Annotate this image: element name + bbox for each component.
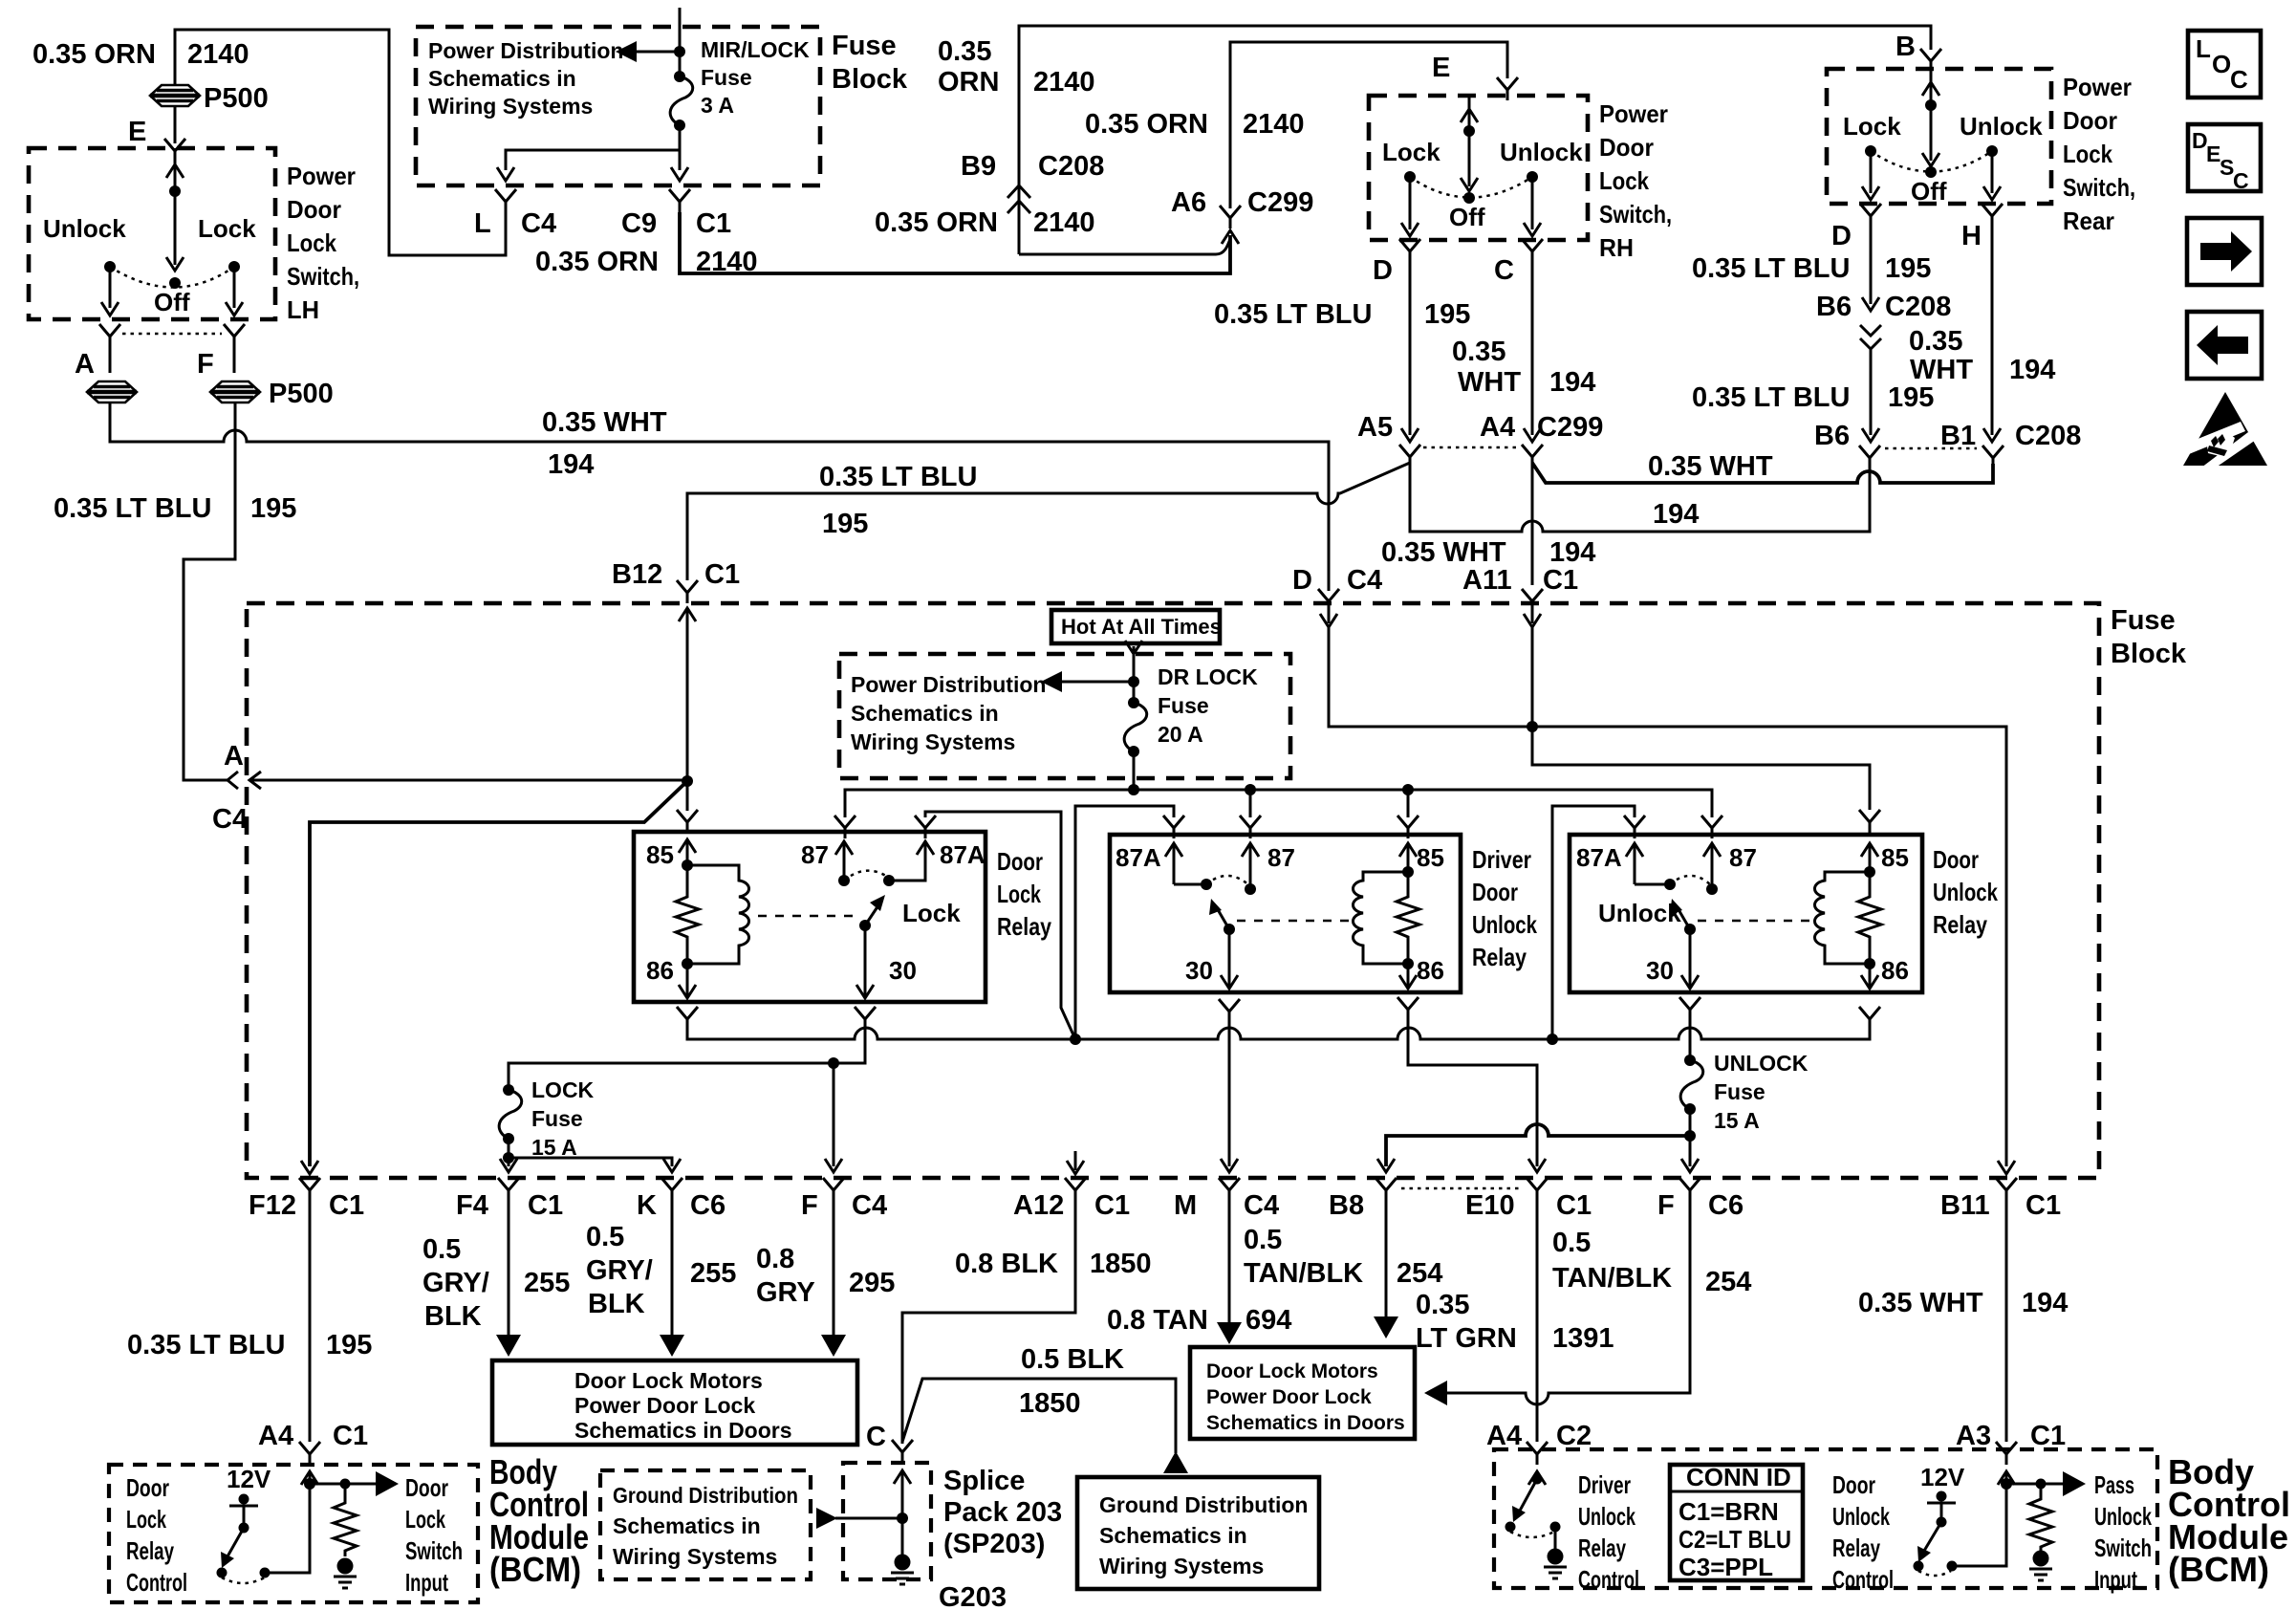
LH power door lock switch box [29, 148, 275, 319]
svg-text:Lock: Lock [1599, 166, 1649, 195]
svg-text:F: F [801, 1190, 818, 1221]
G203 ground ball [891, 1555, 914, 1585]
label Door Lock Switch Input [405, 1473, 463, 1597]
relay3 30 chevron below [1679, 997, 1700, 1020]
svg-text:GRY/: GRY/ [422, 1268, 489, 1298]
svg-text:195: 195 [1888, 382, 1934, 413]
right arrow icon box [2187, 218, 2262, 285]
relay1 85 chevron [677, 810, 698, 833]
svg-text:H: H [1961, 221, 1982, 251]
svg-text:194: 194 [2022, 1288, 2068, 1318]
svg-text:85: 85 [646, 840, 674, 869]
svg-text:(SP203): (SP203) [943, 1529, 1045, 1559]
arrow into BCM at A3/C1 [1998, 1471, 2015, 1485]
pin F label [197, 349, 214, 380]
svg-text:Fuse: Fuse [1158, 693, 1209, 718]
RH unlock output wire C [1524, 177, 1541, 236]
label Fuse Block (right) [2111, 605, 2187, 669]
svg-text:85: 85 [1881, 843, 1909, 872]
labels A12 C1 [1013, 1190, 1130, 1221]
relay2 86 wire to E10 [1408, 1020, 1546, 1172]
label 0.35 LT BLU 195 (rear lower) [1692, 382, 1934, 413]
label Power Door Lock Switch, RH [1599, 99, 1672, 262]
rear H wire down to B1 [1983, 227, 2001, 442]
wire 194 from A4 to rear B1 with hop over rear D wire [1532, 463, 1993, 483]
svg-text:Driver: Driver [1472, 845, 1531, 874]
svg-text:TAN/BLK: TAN/BLK [1244, 1258, 1363, 1289]
top bus wire from B9 column to rear switch B [1019, 26, 1931, 254]
wire from Hot At All Times into DR LOCK fuse [1125, 641, 1142, 703]
relay2 pin 30 arrow [1185, 929, 1238, 989]
connector A4/C1 chevron [299, 1442, 320, 1465]
svg-text:87A: 87A [1116, 843, 1161, 872]
B8 branch wire with hop over E10 [1377, 1124, 1696, 1172]
connector pin A6 chevron and arrow [1220, 206, 1241, 228]
svg-text:E10: E10 [1465, 1190, 1515, 1221]
svg-text:B6: B6 [1814, 421, 1850, 451]
relay3 85 chevron [1859, 810, 1880, 833]
wire from E splice up and over to L/C4 [175, 30, 506, 255]
B11 pin chevron [1996, 1178, 2017, 1201]
arrow into fuse block at B12 [679, 608, 696, 631]
in-line connector B9 C208 double chevron [1007, 185, 1030, 213]
relay2 87A chevron [1163, 816, 1184, 838]
svg-text:194: 194 [2009, 355, 2055, 385]
arrow into BCM at A4/C1 [301, 1471, 318, 1485]
wire C down to A4 [1524, 262, 1541, 442]
svg-text:1391: 1391 [1552, 1323, 1614, 1354]
svg-text:Relay: Relay [1472, 943, 1527, 971]
LOC icon box [2188, 31, 2261, 98]
svg-text:Schematics in: Schematics in [613, 1513, 761, 1538]
svg-text:20 A: 20 A [1158, 722, 1203, 747]
relay1 pin 87 contact [801, 840, 853, 886]
svg-text:WHT: WHT [1458, 367, 1521, 398]
svg-text:A11: A11 [1462, 565, 1512, 596]
relay 3 Door Unlock Relay box [1570, 835, 1922, 992]
svg-text:C4: C4 [1347, 565, 1382, 596]
svg-text:Ground Distribution: Ground Distribution [1099, 1492, 1308, 1517]
svg-text:Unlock: Unlock [1500, 138, 1583, 166]
F4 pin chevron [498, 1178, 519, 1201]
labels F C6 (right) [1657, 1190, 1744, 1221]
svg-text:Lock: Lock [1382, 138, 1440, 166]
label Door Lock Motors Power Door Lock Schematics in Doors (right) [1206, 1360, 1405, 1434]
node E label (RH) [1432, 53, 1450, 83]
svg-text:Wiring Systems: Wiring Systems [851, 729, 1015, 754]
connector pin A chevron [99, 324, 120, 347]
BCM box (right) [1494, 1449, 2157, 1588]
svg-text:Unlock: Unlock [1472, 910, 1537, 939]
label 0.35 WHT 194 (upper left run) [542, 407, 667, 480]
F/C6 wire to motors right box with hop over E10 [1424, 1201, 1690, 1405]
svg-text:Relay: Relay [1832, 1534, 1880, 1562]
Hot At All Times box [1051, 610, 1222, 643]
LH switch lock output wire [226, 267, 243, 315]
labels B6 B1 C208 (lower) [1814, 421, 2081, 451]
DR LOCK fuse box [839, 654, 1290, 778]
svg-text:Door Lock Motors: Door Lock Motors [1206, 1360, 1378, 1382]
86/30 bus below relays [687, 1028, 1870, 1045]
svg-text:P500: P500 [269, 379, 334, 409]
svg-text:C2=LT BLU: C2=LT BLU [1679, 1525, 1791, 1554]
svg-text:Block: Block [2111, 639, 2187, 669]
A12 column labels 0.8 BLK 1850 [955, 1249, 1152, 1279]
svg-text:B12: B12 [612, 559, 662, 590]
LH switch throw arc [110, 267, 234, 288]
wire 194 from A4 down to fuse block A11 [1531, 463, 1534, 585]
svg-text:A: A [75, 349, 95, 380]
label UNLOCK Fuse 15 A [1714, 1051, 1809, 1133]
svg-text:Door: Door [1472, 878, 1518, 906]
E10 pin chevron [1527, 1178, 1548, 1201]
relay3 resistor [1858, 872, 1881, 964]
door lock motors box (right) [1190, 1347, 1415, 1439]
svg-text:Schematics in: Schematics in [428, 66, 576, 91]
svg-text:Power Door Lock: Power Door Lock [574, 1393, 755, 1418]
labels M C4 [1174, 1190, 1279, 1221]
svg-text:Unlock: Unlock [1598, 899, 1681, 927]
relay2 coil to blade dashed link [1237, 920, 1352, 923]
F/C6 pin chevron [1679, 1178, 1700, 1201]
svg-text:E: E [1432, 53, 1450, 83]
relay1 resistor [676, 865, 699, 964]
svg-text:Relay: Relay [126, 1536, 174, 1565]
svg-text:Unlock: Unlock [1832, 1502, 1890, 1531]
relay1 30 output to LOCK fuse and F pin [509, 1030, 865, 1090]
svg-text:C4: C4 [212, 804, 248, 835]
label Body Control Module (BCM) right [2168, 1452, 2290, 1589]
svg-text:Fuse: Fuse [1714, 1079, 1765, 1104]
MIR/LOCK fuse block box [416, 27, 820, 185]
pass unlock switch input arrow (right BCM) [2006, 1471, 2086, 1496]
svg-text:2140: 2140 [1033, 67, 1095, 98]
relay2 pin 85 [1399, 843, 1444, 878]
connector face dashes B8-E10 [1401, 1187, 1522, 1190]
relay2 87A link bracket [1075, 806, 1174, 1039]
splice P500 A [87, 381, 137, 402]
relay1 87A chevron [915, 816, 936, 838]
svg-text:GRY/: GRY/ [586, 1255, 653, 1286]
svg-text:Door: Door [126, 1473, 169, 1502]
svg-text:2140: 2140 [1243, 109, 1305, 140]
labels F12 C1 [249, 1190, 364, 1221]
svg-text:DR LOCK: DR LOCK [1158, 664, 1258, 689]
label Door Unlock Relay [1933, 845, 1998, 939]
relay1 87A link to A12 net [925, 812, 1075, 1039]
svg-text:D: D [1373, 255, 1393, 286]
ground distribution box (dashed, middle) [600, 1470, 811, 1579]
svg-text:Door: Door [1832, 1470, 1875, 1499]
relay2 87 chevron [1240, 816, 1261, 838]
svg-text:Hot At All Times: Hot At All Times [1061, 615, 1222, 639]
relay2 86 chevron below [1397, 997, 1419, 1020]
svg-text:C299: C299 [1247, 187, 1313, 218]
M wire down to motors (right box) [1217, 1201, 1242, 1344]
label 0.35 LT BLU 195 (RH D wire) [1214, 299, 1470, 330]
connector A3/C1 chevron [1996, 1442, 2017, 1465]
svg-text:Switch,: Switch, [2063, 173, 2135, 202]
connector B1 chevron (lower) [1982, 446, 2004, 468]
labels A C4 (left outlet) [212, 741, 248, 835]
rear throw arc [1871, 151, 1992, 172]
12V supply symbol (left BCM) [227, 1465, 271, 1534]
relay2 coil [1354, 872, 1415, 969]
svg-text:Ground Distribution: Ground Distribution [613, 1483, 798, 1508]
svg-text:Power: Power [1599, 99, 1668, 128]
svg-text:3 A: 3 A [701, 93, 734, 118]
CONN ID table [1670, 1463, 1803, 1581]
label Power Door Lock Switch, LH [287, 162, 359, 324]
svg-text:0.35 WHT: 0.35 WHT [1381, 537, 1506, 568]
svg-text:0.35 ORN: 0.35 ORN [535, 247, 659, 277]
svg-text:M: M [1174, 1190, 1197, 1221]
svg-text:Door: Door [1933, 845, 1979, 874]
svg-text:15 A: 15 A [1714, 1108, 1760, 1133]
svg-text:BLK: BLK [424, 1301, 482, 1332]
connector E chevron [164, 139, 185, 162]
relay2 30 chevron below [1219, 999, 1240, 1022]
rear power door lock switch box [1827, 69, 2051, 204]
label 0.35 LT BLU 195 (rear upper) [1692, 253, 1931, 284]
svg-text:C1: C1 [2025, 1190, 2061, 1221]
svg-text:87A: 87A [940, 840, 986, 869]
RH feed arrowheads [1461, 109, 1478, 191]
svg-text:295: 295 [849, 1268, 895, 1298]
svg-text:C2: C2 [1556, 1421, 1592, 1451]
svg-text:Unlock: Unlock [2094, 1502, 2152, 1531]
F pin chevron [823, 1178, 844, 1201]
svg-text:Unlock: Unlock [1933, 878, 1998, 906]
svg-text:Relay: Relay [997, 912, 1051, 941]
label 0.35 WHT 194 (to rear) [1648, 451, 1773, 530]
svg-text:C: C [1494, 255, 1514, 286]
svg-text:G203: G203 [939, 1582, 1007, 1610]
svg-text:C: C [2230, 65, 2248, 94]
svg-text:195: 195 [326, 1330, 372, 1360]
svg-text:B6: B6 [1816, 292, 1852, 322]
svg-text:Power Distribution: Power Distribution [428, 38, 623, 63]
svg-text:Rear: Rear [2063, 207, 2114, 235]
svg-text:Lock: Lock [198, 214, 256, 243]
labels A3 C1 [1956, 1421, 2066, 1451]
svg-text:C4: C4 [521, 208, 556, 239]
svg-text:194: 194 [548, 449, 594, 480]
svg-text:0.35: 0.35 [938, 36, 991, 67]
ground distribution box (solid, right) [1077, 1477, 1319, 1589]
svg-text:Switch,: Switch, [287, 262, 359, 291]
rear feed arrowheads [1922, 82, 1939, 166]
relay3 87 chevron [1701, 816, 1722, 838]
relay2 pin 87 [1242, 843, 1295, 895]
svg-text:Switch,: Switch, [1599, 200, 1672, 228]
svg-text:Block: Block [832, 64, 908, 95]
svg-text:B8: B8 [1329, 1190, 1364, 1221]
relay3 pin 85 [1861, 843, 1909, 878]
svg-text:0.35 LT BLU: 0.35 LT BLU [1214, 299, 1372, 330]
svg-text:30: 30 [1646, 956, 1674, 985]
F/C6 column label 254 [1705, 1267, 1751, 1297]
label Splice Pack 203 (SP203) [943, 1466, 1062, 1559]
svg-text:Power: Power [287, 162, 356, 190]
F4 column labels 0.5 GRY/ BLK 255 [422, 1234, 570, 1332]
label Door Lock Relay Control [126, 1473, 187, 1597]
RH Off contact [1449, 192, 1485, 231]
svg-text:694: 694 [1245, 1305, 1291, 1336]
svg-text:C6: C6 [1708, 1190, 1744, 1221]
arrow into SP203 [894, 1470, 911, 1556]
svg-text:Fuse: Fuse [2111, 605, 2176, 636]
label Driver Door Unlock Relay [1472, 845, 1537, 971]
label DR LOCK Fuse 20 A [1158, 664, 1258, 747]
svg-text:UNLOCK: UNLOCK [1714, 1051, 1809, 1076]
svg-text:0.35: 0.35 [1416, 1290, 1469, 1320]
svg-text:0.5: 0.5 [1552, 1228, 1591, 1258]
svg-text:0.35 WHT: 0.35 WHT [1648, 451, 1773, 482]
A12 pin chevron [1065, 1178, 1086, 1201]
svg-text:Relay: Relay [1578, 1534, 1626, 1562]
label Door Lock Motors Power Door Lock Schematics in Doors [574, 1368, 792, 1443]
svg-text:A12: A12 [1013, 1190, 1064, 1221]
LH switch Off contact [154, 277, 190, 316]
12V supply symbol (right BCM) [1920, 1463, 1965, 1528]
svg-text:P500: P500 [204, 83, 269, 114]
ground ball (driver unlock) [1554, 1527, 1557, 1549]
label 0.35 ORN (two line) 2140 [938, 36, 1095, 98]
labels B11 C1 [1940, 1190, 2061, 1221]
svg-text:A: A [224, 741, 244, 772]
wire into MIR/LOCK fuse [679, 8, 682, 76]
svg-text:254: 254 [1397, 1258, 1442, 1289]
svg-text:Off: Off [154, 288, 190, 316]
RH lock output wire D [1401, 177, 1419, 236]
wire A to splice [109, 347, 112, 373]
svg-text:Off: Off [1449, 203, 1485, 231]
relay1 pin 85 arrow [646, 839, 696, 871]
relay 2 Driver Door Unlock Relay box [1110, 835, 1461, 992]
relay2 30 wire down to M pin [1221, 1022, 1238, 1172]
svg-text:C: C [866, 1422, 886, 1452]
svg-text:C1: C1 [1556, 1190, 1592, 1221]
fused power bus (y=826) feeding 87 pins [845, 784, 1712, 817]
B11 column labels 0.35 WHT 194 [1858, 1288, 2068, 1318]
fuse UNLOCK 15A [1680, 1055, 1703, 1115]
relay1 pin 87A contact [883, 840, 986, 886]
arrow into fuse block bottom at A12 [1067, 1151, 1084, 1174]
svg-text:87A: 87A [1576, 843, 1622, 872]
connector E chevron (RH) [1497, 77, 1518, 100]
svg-text:Driver: Driver [1578, 1470, 1631, 1499]
label P500 lower [269, 379, 334, 409]
svg-text:87: 87 [1267, 843, 1295, 872]
svg-text:0.35 ORN: 0.35 ORN [875, 207, 998, 238]
svg-text:0.35 LT BLU: 0.35 LT BLU [127, 1330, 285, 1360]
F12 wire to BCM with labels [309, 1201, 312, 1442]
B8 column labels 0.5 TAN/BLK 254 [1244, 1225, 1442, 1289]
labels F4 C1 [456, 1190, 563, 1221]
label Power Distribution Schematics in Wiring Systems (DR LOCK box) [851, 672, 1046, 754]
svg-text:C: C [2233, 168, 2249, 193]
driver unlock relay blade (right BCM) [1505, 1474, 1543, 1533]
svg-text:Power Door Lock: Power Door Lock [1206, 1386, 1372, 1408]
svg-text:Control: Control [126, 1568, 187, 1597]
arrow into BCM at A4/C2 [1528, 1471, 1546, 1485]
svg-text:86: 86 [1417, 956, 1444, 985]
svg-text:255: 255 [524, 1268, 570, 1298]
svg-text:15 A: 15 A [531, 1135, 577, 1160]
svg-text:Control: Control [1578, 1565, 1639, 1594]
svg-text:Schematics in Doors: Schematics in Doors [1206, 1412, 1405, 1434]
rear D wire lower to B6 [1862, 356, 1879, 442]
wire DR LOCK fuse output to bus [1133, 751, 1136, 790]
K pin chevron [661, 1178, 682, 1201]
wire label 0.35 ORN 2140 (top left) [32, 39, 249, 70]
pin A label [75, 349, 95, 380]
relay3 87A link bracket [1552, 806, 1635, 1039]
relay3 coil to blade dashed link [1698, 920, 1812, 923]
svg-text:86: 86 [646, 956, 674, 985]
splice pack box SP203 [843, 1463, 931, 1579]
label 0.35 ORN 2140 (below C9) [535, 247, 758, 277]
relay1 87 chevron [834, 816, 856, 838]
svg-text:(BCM): (BCM) [2168, 1550, 2269, 1589]
label B8 [1329, 1190, 1364, 1221]
wire 195 rear branch from A5 down and right to B6 with hop over A4 wire [1410, 463, 1870, 532]
svg-text:Wiring Systems: Wiring Systems [428, 94, 593, 119]
svg-text:LOCK: LOCK [531, 1077, 595, 1102]
label 0.35 WHT 194 (RH C wire) [1452, 337, 1595, 398]
svg-text:Input: Input [2094, 1565, 2137, 1594]
relay3 86 chevron below [1859, 1007, 1880, 1030]
svg-text:Fuse: Fuse [701, 65, 752, 90]
svg-text:A5: A5 [1357, 412, 1393, 443]
svg-text:C4: C4 [852, 1190, 887, 1221]
label Power Distribution Schematics in Wiring Systems [428, 38, 623, 119]
svg-text:Pass: Pass [2094, 1470, 2134, 1499]
svg-text:0.8: 0.8 [756, 1244, 794, 1274]
svg-text:C208: C208 [2015, 421, 2081, 451]
svg-text:194: 194 [1549, 367, 1595, 398]
E10 wire down to BCM [1536, 1201, 1539, 1442]
svg-text:Relay: Relay [1933, 910, 1987, 939]
relay 1 Door Lock Relay box [634, 832, 986, 1002]
svg-text:C208: C208 [1038, 151, 1104, 182]
relay1 pin 30 arrow [856, 925, 917, 998]
internal wire to A/C4 outlet [250, 779, 687, 782]
svg-text:C3=PPL: C3=PPL [1679, 1553, 1773, 1581]
svg-text:Fuse: Fuse [531, 1106, 583, 1131]
svg-text:194: 194 [1549, 537, 1595, 568]
svg-text:0.8 TAN: 0.8 TAN [1107, 1305, 1208, 1336]
RH switch common feed wire [1463, 96, 1475, 186]
relay2 contact throw arc [1206, 876, 1250, 886]
F column labels 0.8 GRY 295 [756, 1244, 895, 1308]
fuse output arrowheads [497, 167, 688, 181]
svg-text:0.35 LT BLU: 0.35 LT BLU [1692, 253, 1850, 284]
svg-text:0.35: 0.35 [1452, 337, 1505, 367]
relay3 pin 30 arrow [1646, 929, 1699, 989]
svg-text:F: F [197, 349, 214, 380]
svg-text:O: O [2212, 50, 2231, 78]
svg-text:B1: B1 [1940, 421, 1976, 451]
svg-text:(BCM): (BCM) [489, 1550, 581, 1589]
svg-text:0.5: 0.5 [422, 1234, 461, 1265]
connector pin L chevron [495, 189, 516, 212]
labels C9 C1 [621, 208, 731, 239]
svg-text:C1: C1 [329, 1190, 364, 1221]
F12 pin chevron [299, 1178, 320, 1201]
svg-text:Lock: Lock [1843, 112, 1901, 141]
